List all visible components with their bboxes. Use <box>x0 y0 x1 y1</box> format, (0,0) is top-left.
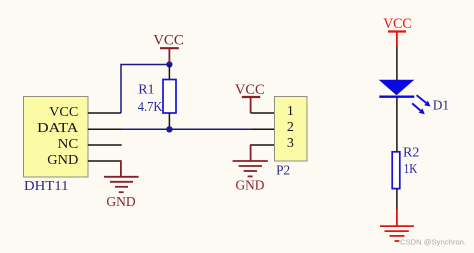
LED D1 triangle <box>379 80 415 96</box>
wire VCC pin up to VCC node <box>121 65 169 114</box>
svg-text:3: 3 <box>287 136 294 151</box>
svg-text:4.7K: 4.7K <box>138 100 163 115</box>
junction dot at VCC node <box>166 61 172 67</box>
svg-text:GND: GND <box>236 178 265 193</box>
svg-text:VCC: VCC <box>153 32 184 48</box>
ground symbol (right, bright red) <box>380 209 414 241</box>
svg-text:VCC: VCC <box>49 105 78 120</box>
svg-text:2: 2 <box>287 120 294 135</box>
svg-text:R1: R1 <box>138 83 154 98</box>
pin 3 NC of DHT11 <box>88 144 122 146</box>
power port VCC (middle, dark red) <box>242 97 260 113</box>
wire/pin to P2 pin 1 <box>251 112 275 114</box>
svg-text:P2: P2 <box>276 164 290 179</box>
wire DATA net from DHT11 to P2 pin2 <box>121 128 251 130</box>
power port VCC (right, bright red) <box>388 32 406 47</box>
svg-text:GND: GND <box>106 195 135 210</box>
pin 1 VCC of DHT11 <box>88 112 121 114</box>
wire LED cathode to R2 <box>396 97 398 152</box>
resistor R1 <box>168 65 170 80</box>
svg-text:CSDN @Synchron.: CSDN @Synchron. <box>400 238 466 247</box>
LED arrow 2 <box>412 103 425 114</box>
junction dot DATA/R1 <box>166 126 172 132</box>
svg-text:GND: GND <box>47 153 78 168</box>
pin stub P2 pin 2 <box>251 128 275 130</box>
power port VCC (left, dark red) <box>160 48 179 64</box>
ground symbol at P2 pin 3 (dark red) <box>233 144 268 176</box>
svg-text:DHT11: DHT11 <box>24 179 69 194</box>
svg-text:D1: D1 <box>433 98 449 113</box>
LED D1 cathode bar <box>379 95 414 97</box>
ground symbol at DHT11 GND pin (dark red) <box>104 160 139 192</box>
svg-text:R2: R2 <box>403 146 419 161</box>
LED arrow 1 <box>417 95 431 106</box>
svg-text:VCC: VCC <box>383 16 411 32</box>
svg-text:1: 1 <box>287 104 294 119</box>
svg-text:VCC: VCC <box>235 82 265 98</box>
component DHT11 body <box>24 97 89 178</box>
svg-text:NC: NC <box>58 137 79 152</box>
connector P2 body <box>275 97 308 162</box>
wire R2 to ground <box>396 189 398 210</box>
wire/pin to P2 pin 3 <box>251 144 275 146</box>
wire VCC to LED anode <box>396 47 398 81</box>
resistor R2 <box>392 152 400 189</box>
svg-text:1K: 1K <box>404 162 418 177</box>
pin 2 DATA of DHT11 <box>88 128 121 130</box>
svg-text:DATA: DATA <box>37 121 79 136</box>
pin 4 GND of DHT11 <box>88 160 122 162</box>
